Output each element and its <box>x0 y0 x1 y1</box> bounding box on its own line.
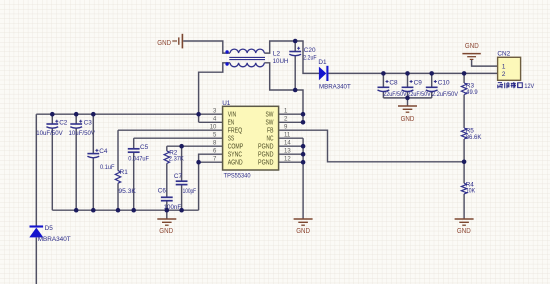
U1 pin 13 PGND <box>258 149 291 159</box>
svg-text:GND: GND <box>157 40 171 47</box>
resistor R5 <box>461 127 482 141</box>
svg-text:GND: GND <box>401 116 415 123</box>
U1 pin 14 PGND <box>258 141 291 151</box>
svg-text:U1: U1 <box>222 100 231 107</box>
svg-text:C3: C3 <box>84 120 93 127</box>
capacitor C7 <box>174 146 196 210</box>
wire L2 bottom left to VIN node <box>199 63 230 123</box>
U1 pin 12 PGND <box>258 157 291 167</box>
svg-text:10K: 10K <box>466 188 476 195</box>
svg-text:10: 10 <box>210 125 217 131</box>
svg-text:PGND: PGND <box>258 144 274 151</box>
svg-text:NC: NC <box>267 136 274 143</box>
svg-text:D1: D1 <box>318 59 327 66</box>
svg-text:12V: 12V <box>524 83 534 90</box>
wire PGND pin 13 <box>279 153 304 155</box>
svg-text:2: 2 <box>502 71 506 78</box>
wire SW pin 2 <box>279 121 303 123</box>
svg-text:10uF/50V: 10uF/50V <box>36 130 63 137</box>
wire SW pin 1 <box>279 113 303 115</box>
svg-text:C20: C20 <box>304 47 316 54</box>
svg-text:12: 12 <box>284 157 291 163</box>
inductor L2 coupled windings <box>225 49 288 67</box>
op-amp U1 TPS55340 body <box>223 106 279 170</box>
svg-text:EN: EN <box>228 120 235 127</box>
svg-text:14: 14 <box>284 141 291 147</box>
power port GND top-left <box>157 34 182 49</box>
svg-text:C5: C5 <box>140 144 149 151</box>
svg-text:C4: C4 <box>99 148 108 155</box>
wire output gnd stub <box>407 98 409 106</box>
svg-text:10uF/50V: 10uF/50V <box>69 130 96 137</box>
svg-text:MBRA340T: MBRA340T <box>319 84 351 91</box>
svg-text:1: 1 <box>502 63 506 70</box>
wire EN pin 4 <box>199 121 223 123</box>
wire 12V output rail <box>328 72 497 74</box>
resistor R2 <box>164 146 184 163</box>
wire C8-C10 bottom tie <box>383 97 431 99</box>
CN2 pin 2 <box>502 71 506 78</box>
capacitor C2 <box>36 114 68 210</box>
wire COMP pin 8 to R2/C7 <box>167 145 223 147</box>
svg-text:11: 11 <box>284 133 291 139</box>
svg-text:SW: SW <box>266 112 274 119</box>
svg-text:MBRA340T: MBRA340T <box>38 236 71 243</box>
capacitor C6 <box>158 163 181 210</box>
capacitor C4 <box>87 114 114 210</box>
svg-text:95.3K: 95.3K <box>118 188 136 195</box>
svg-text:10UH: 10UH <box>273 58 289 65</box>
svg-text:VIN: VIN <box>228 112 237 119</box>
svg-text:C2: C2 <box>59 120 68 127</box>
svg-text:C6: C6 <box>158 187 167 194</box>
connector CN2 body <box>498 57 521 80</box>
svg-text:CN2: CN2 <box>497 50 510 57</box>
U1 pin 3 VIN <box>213 109 236 119</box>
svg-text:GND: GND <box>457 228 471 235</box>
wire FREQ pin 10 to R1 <box>118 129 223 131</box>
svg-text:D5: D5 <box>45 225 54 232</box>
capacitor C5 <box>128 138 149 210</box>
capacitor C10 <box>426 73 459 98</box>
svg-text:SYNC: SYNC <box>228 152 243 159</box>
wire SYNC pin 6 <box>199 154 223 162</box>
svg-text:PGND: PGND <box>258 152 274 159</box>
wire D5 anode down <box>35 238 37 284</box>
wire L2 bottom right to SW <box>264 63 303 123</box>
svg-text:2.37K: 2.37K <box>169 156 185 163</box>
wire GND to L2 primary <box>183 41 230 53</box>
U1 pin 4 EN <box>213 117 234 127</box>
ground under C6 rail <box>157 210 176 235</box>
svg-text:SW: SW <box>266 120 274 127</box>
svg-text:13: 13 <box>284 149 291 155</box>
svg-text:TPS55340: TPS55340 <box>224 172 251 179</box>
capacitor C8 <box>378 73 408 98</box>
U1 pin 7 AGND <box>213 157 243 167</box>
svg-text:FREQ: FREQ <box>228 128 243 135</box>
svg-text:SS: SS <box>228 136 235 143</box>
svg-text:100pF: 100pF <box>183 188 197 195</box>
svg-text:GND: GND <box>465 43 479 50</box>
svg-text:PGND: PGND <box>258 160 274 167</box>
wire GND rail <box>52 209 198 211</box>
CN2 pin 1 <box>502 63 506 70</box>
power port GND above CN2 <box>462 43 480 59</box>
wire SS pin 5 to C5 <box>134 137 223 139</box>
svg-text:C9: C9 <box>414 80 423 87</box>
U1 pin 2 SW <box>266 117 289 127</box>
wire VIN feed from D5 <box>35 114 37 226</box>
svg-text:FB: FB <box>267 128 274 135</box>
U1 pin 6 SYNC <box>213 149 242 159</box>
wire divider column <box>463 73 465 218</box>
svg-text:AGND: AGND <box>228 160 243 167</box>
ground under R4 <box>455 219 474 235</box>
svg-text:C7: C7 <box>174 173 183 180</box>
svg-text:2.2uF/50V: 2.2uF/50V <box>432 91 459 98</box>
svg-text:2.2uF: 2.2uF <box>303 54 316 61</box>
wire FB pin 9 to divider <box>279 130 465 162</box>
wire PGND pin 14 <box>279 145 304 147</box>
capacitor C3 <box>69 114 96 210</box>
svg-text:GND: GND <box>296 228 310 235</box>
ground under PGND <box>294 219 313 235</box>
svg-text:49.9: 49.9 <box>466 89 478 96</box>
ground under C9 <box>398 106 417 123</box>
capacitor C20 <box>289 41 316 90</box>
svg-text:R1: R1 <box>120 169 129 176</box>
svg-text:GND: GND <box>159 228 173 235</box>
U1 pin 10 FREQ <box>210 125 243 135</box>
svg-text:0.1uF: 0.1uF <box>100 164 115 171</box>
wire PGND pin 12 <box>279 161 304 163</box>
svg-text:0.047uF: 0.047uF <box>128 155 149 162</box>
U1 pin 9 FB <box>267 125 288 135</box>
U1 pin 11 NC <box>267 133 291 143</box>
wire NC pin 11 <box>279 137 304 139</box>
diode D1 MBRA340T <box>318 59 350 91</box>
svg-text:86.6K: 86.6K <box>466 134 482 141</box>
svg-text:22uF/50V: 22uF/50V <box>383 91 407 98</box>
wire CN2 pin1 from gnd <box>472 60 498 67</box>
CN2 caption 视频接口12V <box>498 82 535 90</box>
wire AGND pin 7 <box>199 162 223 210</box>
wire PGND down to ground <box>302 138 304 218</box>
capacitor C9 <box>402 73 432 98</box>
svg-text:C10: C10 <box>438 80 450 87</box>
resistor R1 <box>115 130 136 210</box>
U1 pin 8 COMP <box>213 141 243 151</box>
resistor R3 <box>461 82 478 96</box>
resistor R4 <box>461 181 475 194</box>
svg-text:COMP: COMP <box>228 144 244 151</box>
wire VIN rail <box>36 113 198 115</box>
svg-text:22uF/50V: 22uF/50V <box>407 91 431 98</box>
svg-text:C8: C8 <box>389 80 398 87</box>
wire L2 top right to C20/D1 node <box>264 41 319 73</box>
svg-text:L2: L2 <box>273 50 281 57</box>
wire VIN pin 3 <box>199 113 223 115</box>
U1 pin 1 SW <box>266 109 289 119</box>
diode D5 MBRA340T <box>29 225 70 243</box>
U1 pin 5 SS <box>213 133 234 143</box>
